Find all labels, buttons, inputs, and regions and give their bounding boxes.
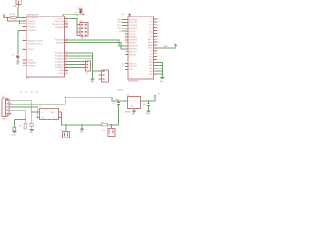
wire X1 pin4	[12, 110, 26, 123]
voltage regulator IC2 7805	[117, 90, 140, 114]
wire reset net horizontal	[4, 16, 26, 18]
svg-text:PB1(OC1): PB1(OC1)	[129, 52, 137, 54]
wire C2 drop	[110, 125, 112, 128]
supply 5V (left)	[3, 14, 6, 18]
wire X1 shield net	[14, 119, 25, 127]
svg-text:PD0(RXD): PD0(RXD)	[28, 21, 36, 23]
IC4 right pin labels	[148, 19, 153, 76]
svg-text:PD5(T1): PD5(T1)	[129, 34, 136, 36]
capacitor C2 (electrolytic)	[103, 128, 115, 136]
svg-text:9: 9	[157, 52, 158, 54]
svg-text:23: 23	[157, 33, 159, 35]
node junction SV1 bus	[76, 18, 77, 19]
ground (bottom rail)	[79, 129, 84, 134]
svg-text:PB1(OC1A): PB1(OC1A)	[55, 20, 64, 23]
header SV3	[98, 70, 108, 82]
svg-text:28: 28	[157, 19, 159, 21]
ground (C4)	[146, 111, 151, 116]
svg-text:PD3(INT1): PD3(INT1)	[28, 30, 37, 32]
wire D2 to ground	[13, 130, 15, 132]
svg-text:21: 21	[157, 39, 159, 41]
svg-text:PD7(AIN1): PD7(AIN1)	[28, 65, 37, 68]
svg-text:2: 2	[23, 19, 24, 21]
svg-text:PB7(XT2): PB7(XT2)	[129, 66, 137, 68]
svg-text:ATMEGA8-16P: ATMEGA8-16P	[128, 80, 140, 83]
wire ADC nets to gnd bus	[68, 53, 92, 78]
wire branch to pin2	[19, 20, 23, 22]
svg-text:PD0(RXD): PD0(RXD)	[129, 19, 137, 21]
svg-text:3: 3	[23, 22, 24, 24]
wire bus to SV3	[92, 70, 101, 72]
node junction gnd rail	[81, 124, 82, 125]
wire V+ long top wire to regulator	[65, 97, 127, 104]
svg-text:PB3(MOSI): PB3(MOSI)	[129, 46, 138, 48]
IC1 right pin stubs	[65, 18, 69, 73]
svg-text:24: 24	[65, 54, 67, 56]
resistor R7	[19, 124, 26, 130]
svg-text:PB3(MOSI): PB3(MOSI)	[55, 27, 64, 29]
svg-text:AREF: AREF	[59, 69, 64, 72]
svg-text:PB0(ICP): PB0(ICP)	[57, 18, 65, 20]
svg-text:25: 25	[65, 57, 67, 59]
svg-text:R1 10k: R1 10k	[10, 14, 16, 16]
svg-text:ADC6: ADC6	[148, 41, 153, 44]
supply 5V (above IC4)	[122, 14, 131, 17]
IC1 left pin labels	[28, 17, 44, 67]
svg-text:11: 11	[23, 48, 25, 50]
svg-text:PD4(T0): PD4(T0)	[28, 49, 35, 51]
svg-text:PD7(AIN1): PD7(AIN1)	[129, 39, 138, 42]
header SV1	[78, 21, 89, 40]
svg-text:C5: C5	[20, 91, 22, 93]
svg-text:100n: 100n	[115, 99, 119, 101]
node junction branch a	[19, 20, 20, 21]
svg-text:27: 27	[157, 21, 159, 23]
svg-text:PD3(INT1): PD3(INT1)	[129, 28, 138, 30]
capacitor C1 (electrolytic)	[60, 130, 69, 138]
svg-text:INT0: INT0	[117, 25, 121, 27]
wire from JP1 down to reset net	[17, 6, 19, 17]
ground (regulator)	[131, 111, 136, 116]
wire cap to ground	[17, 58, 19, 61]
svg-text:PC4(ADC4): PC4(ADC4)	[55, 63, 64, 66]
svg-text:C3: C3	[113, 103, 115, 105]
wire SV1 bus from IC1 PB0	[68, 18, 80, 35]
svg-text:R7: R7	[19, 126, 21, 128]
svg-text:PD2(INT0): PD2(INT0)	[28, 27, 37, 29]
svg-text:21: 21	[65, 69, 67, 71]
IC1 ATmega8 body	[26, 14, 64, 81]
node junction C1	[65, 124, 66, 125]
supply 5V (regulator out)	[154, 94, 161, 97]
wire SCK net (IC1 to IC4)	[68, 43, 125, 49]
connector X1 (bottom left)	[2, 96, 12, 116]
svg-text:PC3: PC3	[149, 27, 152, 29]
svg-text:C10: C10	[35, 91, 38, 93]
svg-text:27: 27	[65, 63, 67, 65]
net labels (power section)	[20, 91, 38, 93]
svg-text:23: 23	[65, 52, 67, 54]
svg-text:IC1: IC1	[26, 78, 29, 80]
node junction shield/pin4	[25, 119, 26, 120]
node junction C2	[111, 124, 112, 125]
svg-text:T0: T0	[119, 31, 121, 33]
node junction regulator input cap	[118, 100, 119, 101]
svg-text:4: 4	[157, 58, 158, 60]
IC1 left pin stubs	[23, 21, 27, 66]
svg-text:Q2: Q2	[122, 66, 124, 68]
svg-text:26: 26	[157, 24, 159, 26]
svg-text:C1: C1	[60, 130, 62, 132]
svg-text:28: 28	[65, 66, 67, 68]
svg-text:PB0(ICP): PB0(ICP)	[129, 43, 137, 45]
svg-text:1: 1	[21, 1, 22, 3]
svg-text:PB4(MISO): PB4(MISO)	[55, 40, 64, 42]
header SV2	[82, 61, 90, 75]
capacitor C3	[113, 99, 120, 125]
svg-text:6: 6	[23, 28, 24, 30]
svg-text:BATT: BATT	[51, 111, 55, 114]
svg-text:PC4: PC4	[149, 25, 152, 27]
diode D1 (on rail)	[101, 122, 107, 126]
node junction X1 pin3	[31, 106, 32, 107]
wire XTAL cap drop (left)	[18, 30, 23, 54]
svg-text:PB7(XTAL2/TOSC2): PB7(XTAL2/TOSC2)	[28, 42, 44, 45]
svg-text:PC5(ADC5): PC5(ADC5)	[55, 66, 64, 69]
IC1 left pin numbers	[23, 16, 25, 50]
svg-text:PD2(INT0): PD2(INT0)	[129, 25, 138, 27]
capacitor C4	[143, 101, 150, 111]
svg-text:1: 1	[23, 16, 24, 18]
node junction JP1/reset	[17, 17, 18, 18]
svg-text:AVCC: AVCC	[164, 45, 169, 48]
svg-text:16: 16	[65, 23, 67, 25]
svg-text:15: 15	[65, 20, 67, 22]
svg-text:C6: C6	[25, 91, 27, 93]
IC4 ATmega8 body (right)	[128, 17, 154, 83]
LED D2	[13, 127, 16, 131]
node junction branch b	[19, 23, 20, 24]
svg-text:PC1: PC1	[149, 33, 152, 35]
capacitor C8 (small, right of crystal)	[82, 14, 84, 15]
svg-text:PC2(ADC2): PC2(ADC2)	[55, 58, 64, 61]
svg-text:22p: 22p	[76, 15, 79, 17]
ground (right of IC4)	[160, 78, 165, 83]
wire AVCC net (right)	[157, 45, 176, 48]
IC4 left pin labels	[129, 19, 138, 71]
crystal Q1 (top)	[75, 8, 83, 17]
ground (D2)	[12, 132, 17, 137]
svg-text:XT2: XT2	[149, 51, 152, 53]
pin stub regulator gnd	[133, 108, 135, 110]
wire J2 minus to gnd rail	[61, 112, 118, 125]
IC4 right pin stubs	[153, 19, 157, 74]
svg-text:PB6(XTAL1/TOSC1): PB6(XTAL1/TOSC1)	[28, 39, 44, 42]
IC4 right pin numbers	[157, 19, 159, 61]
svg-text:9: 9	[23, 39, 24, 41]
svg-text:78L05Z: 78L05Z	[117, 90, 123, 92]
wire GND bus (right of IC4)	[157, 62, 163, 77]
svg-text:+: +	[60, 114, 61, 116]
svg-text:PD1(TXD): PD1(TXD)	[28, 24, 36, 26]
svg-text:26: 26	[65, 60, 67, 62]
svg-text:PC6: PC6	[149, 19, 152, 21]
IC4 left pin stubs	[125, 20, 128, 70]
svg-text:JP2: JP2	[85, 73, 88, 75]
svg-text:AREF: AREF	[148, 44, 153, 47]
svg-text:18: 18	[65, 38, 67, 40]
svg-text:24: 24	[157, 30, 159, 32]
svg-text:C9: C9	[30, 91, 32, 93]
svg-text:INT1: INT1	[117, 28, 121, 30]
svg-text:PD6(AIN0): PD6(AIN0)	[28, 62, 37, 65]
IC1 right pin numbers	[65, 17, 67, 74]
wire X1 pin3	[12, 107, 40, 117]
svg-text:PB5(SCK): PB5(SCK)	[129, 49, 137, 51]
svg-text:OUT: OUT	[135, 100, 139, 102]
capacitor C7	[12, 55, 20, 58]
wire IC4 left short nets	[122, 20, 125, 32]
svg-text:19: 19	[65, 41, 67, 43]
svg-text:AVCC: AVCC	[59, 72, 64, 75]
svg-text:17: 17	[65, 26, 67, 28]
svg-text:PC6(/RESET): PC6(/RESET)	[28, 17, 39, 19]
svg-text:Q2: Q2	[122, 63, 124, 65]
IC4 left net labels	[117, 19, 124, 68]
svg-text:PD1(TXD): PD1(TXD)	[129, 22, 137, 24]
svg-text:PC1(ADC1): PC1(ADC1)	[55, 55, 64, 58]
wire gnd rail drop	[81, 125, 83, 129]
svg-text:C7: C7	[12, 55, 14, 57]
svg-text:22: 22	[157, 36, 159, 38]
resistor R8	[30, 124, 33, 127]
svg-text:LM7805: LM7805	[125, 111, 131, 113]
svg-text:25: 25	[157, 27, 159, 29]
svg-text:PD6(AIN0): PD6(AIN0)	[129, 36, 138, 39]
wire X1 pin1 to J2	[12, 101, 40, 124]
svg-text:XT1: XT1	[149, 54, 152, 56]
svg-text:PB5(SCK): PB5(SCK)	[56, 42, 64, 44]
svg-text:PB2(SS): PB2(SS)	[129, 54, 136, 56]
svg-text:PC3(ADC3): PC3(ADC3)	[55, 60, 64, 63]
wire SV2 nets	[68, 62, 82, 68]
svg-text:14: 14	[65, 17, 67, 19]
node junctions adc bus	[92, 55, 93, 56]
svg-text:PB2(SS/OC1B): PB2(SS/OC1B)	[52, 24, 64, 26]
ground (below SV2)	[90, 79, 95, 84]
svg-text:PB6(XT1): PB6(XT1)	[129, 63, 137, 65]
svg-text:20: 20	[157, 42, 159, 44]
wire reset branch down	[7, 17, 23, 23]
wire regulator output	[141, 97, 156, 101]
svg-text:C2: C2	[103, 130, 105, 132]
svg-text:D1: D1	[101, 122, 103, 124]
ground (below R8)	[29, 130, 34, 135]
svg-text:PC0(ADC0): PC0(ADC0)	[55, 52, 64, 55]
wire X1 pin2 (V+ to regulator)	[12, 103, 65, 105]
svg-text:PC0: PC0	[149, 36, 152, 38]
svg-text:7: 7	[157, 55, 158, 57]
connector JP1 (top left, cut off at top)	[13, 0, 22, 8]
battery module J2	[37, 106, 62, 119]
wire C1 drop	[65, 125, 67, 131]
wire crystal loop	[63, 13, 81, 16]
wire MOSI net (IC1 to IC4)	[68, 40, 125, 46]
svg-text:20: 20	[65, 72, 67, 74]
ground (left cap)	[16, 61, 21, 65]
svg-text:PD4(T0): PD4(T0)	[129, 31, 136, 33]
svg-text:C4: C4	[143, 104, 145, 106]
svg-text:PC5: PC5	[149, 22, 152, 24]
pin stub IC1 pin1	[23, 16, 27, 18]
node junctions gnd bus	[162, 65, 163, 66]
resistor R1	[10, 14, 17, 19]
svg-text:PD5(T1): PD5(T1)	[28, 60, 35, 62]
svg-text:AVCC: AVCC	[148, 47, 153, 50]
wire R8 to ground	[31, 126, 33, 129]
node junction gnd cross	[31, 111, 32, 112]
svg-text:PC2: PC2	[149, 30, 152, 32]
svg-text:J2: J2	[39, 106, 41, 108]
IC1 right pin labels	[52, 18, 64, 75]
node junction bus/SV3	[92, 70, 93, 71]
svg-text:ADC7: ADC7	[148, 38, 153, 41]
supply flag 5V (far right)	[174, 43, 177, 46]
node junction R1 left	[7, 17, 8, 18]
node junction C4	[148, 100, 149, 101]
